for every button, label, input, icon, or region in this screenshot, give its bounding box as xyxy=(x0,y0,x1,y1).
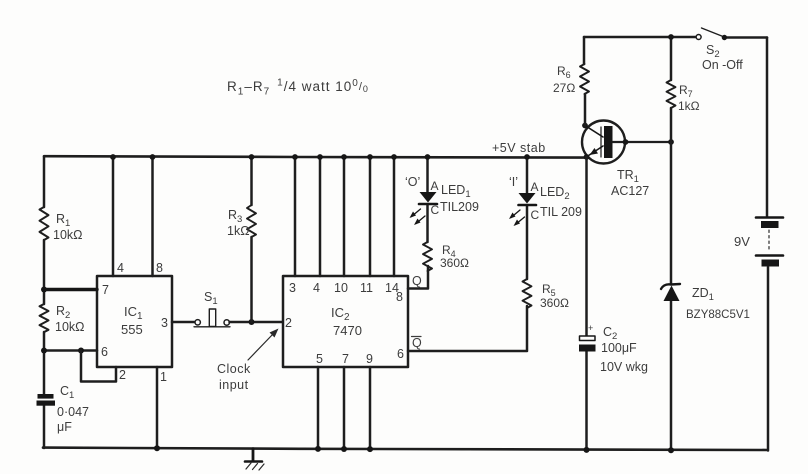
svg-text:8: 8 xyxy=(396,290,403,304)
resistor R3 xyxy=(250,157,253,322)
wire: bottom 0V bus xyxy=(43,448,767,450)
svg-text:3: 3 xyxy=(289,281,296,295)
junction: R7 on rail xyxy=(668,34,674,40)
svg-text:7: 7 xyxy=(102,283,109,297)
svg-text:C2: C2 xyxy=(603,325,617,342)
svg-text:9V: 9V xyxy=(734,234,750,249)
svg-text:C1: C1 xyxy=(60,384,74,401)
wire: pin 2 loop xyxy=(81,351,116,382)
junction: pin6/pin2 loop xyxy=(78,348,84,354)
LED2 wires xyxy=(526,157,529,279)
svg-text:LED1: LED1 xyxy=(441,183,471,200)
svg-text:TR1: TR1 xyxy=(617,168,639,185)
svg-text:AC127: AC127 xyxy=(611,184,649,198)
svg-text:C: C xyxy=(531,208,540,222)
svg-text:2: 2 xyxy=(119,368,126,382)
junction: left rail pin6 xyxy=(41,348,47,354)
svg-text:11: 11 xyxy=(360,281,373,295)
pin 7 wire (bold) xyxy=(44,288,97,291)
svg-text:10V wkg: 10V wkg xyxy=(600,360,648,374)
resistor R4 xyxy=(423,242,432,271)
battery B1 9V xyxy=(766,38,769,217)
svg-text:9: 9 xyxy=(366,352,373,366)
svg-text:10kΩ: 10kΩ xyxy=(55,320,85,334)
svg-text:0·047: 0·047 xyxy=(57,405,89,419)
svg-text:R7: R7 xyxy=(679,83,693,99)
junctions: IC2 bottom pins on 0V bus xyxy=(315,446,321,452)
svg-text:Q: Q xyxy=(412,336,422,350)
switch S1 push-button xyxy=(195,320,200,325)
svg-text:1kΩ: 1kΩ xyxy=(227,224,250,238)
pin 1 wire xyxy=(156,367,159,449)
wire: left vertical rail xyxy=(43,157,46,448)
svg-text:input: input xyxy=(219,378,249,392)
LED1 light arrows xyxy=(412,209,421,217)
TR1 emitter line with arrow xyxy=(587,146,603,157)
svg-text:5: 5 xyxy=(316,352,323,366)
resistor R2 xyxy=(40,304,49,332)
switch S2 xyxy=(696,35,701,40)
TR1 collector line xyxy=(585,126,603,138)
svg-text:360Ω: 360Ω xyxy=(540,296,569,310)
svg-text:R6: R6 xyxy=(557,64,571,80)
svg-text:R1: R1 xyxy=(56,212,70,229)
LED2 TIL209 xyxy=(519,193,536,204)
junction: C2 on 0V bus xyxy=(584,447,590,453)
IC2 bottom pin wires 5,7,9 xyxy=(318,367,370,449)
svg-text:S1: S1 xyxy=(204,290,218,307)
svg-text:1: 1 xyxy=(160,370,167,384)
pin 3 wire xyxy=(172,321,195,324)
svg-text:2: 2 xyxy=(285,316,292,330)
svg-text:10: 10 xyxy=(334,281,348,295)
svg-text:3: 3 xyxy=(161,316,168,330)
svg-text:10kΩ: 10kΩ xyxy=(53,228,83,242)
resistor R7 with wires xyxy=(670,37,673,142)
svg-text:Clock: Clock xyxy=(217,362,251,376)
svg-text:1kΩ: 1kΩ xyxy=(678,99,700,113)
junction: emitter / +5V xyxy=(584,154,590,160)
svg-text:Q: Q xyxy=(412,274,422,288)
svg-text:R1–R71/4 watt 100/0: R1–R71/4 watt 100/0 xyxy=(227,78,369,98)
IC2 top pin wires 3,4,10,11,14 xyxy=(295,157,394,276)
wire: Qbar pin 6 to R5 xyxy=(408,306,527,351)
junction: ZD1 on 0V bus xyxy=(668,447,674,453)
capacitor C2 with wires xyxy=(585,157,588,450)
svg-text:27Ω: 27Ω xyxy=(553,81,575,95)
wire: top right rail xyxy=(584,36,696,39)
resistor R1 xyxy=(40,207,49,240)
junction: R3 / clock line xyxy=(249,319,255,325)
svg-text:On -Off: On -Off xyxy=(702,58,743,72)
svg-text:4: 4 xyxy=(117,261,124,275)
svg-text:8: 8 xyxy=(156,261,163,275)
svg-text:100μF: 100μF xyxy=(601,341,637,355)
junction: base at circle edge xyxy=(623,139,629,145)
svg-text:‘I’: ‘I’ xyxy=(509,175,518,189)
svg-text:4: 4 xyxy=(313,281,320,295)
svg-text:R3: R3 xyxy=(228,208,242,225)
svg-text:555: 555 xyxy=(121,322,143,337)
svg-text:360Ω: 360Ω xyxy=(440,256,469,270)
svg-text:A: A xyxy=(431,179,439,193)
wire: S1 to IC2 pin 2 xyxy=(230,321,284,324)
svg-text:+: + xyxy=(588,323,593,333)
svg-text:TIL 209: TIL 209 xyxy=(540,205,582,219)
LED1 TIL209 xyxy=(420,192,437,203)
wire: Q output pin 8 to R4 xyxy=(408,266,428,289)
svg-text:7: 7 xyxy=(342,352,349,366)
junctions on +5V bus xyxy=(110,154,116,160)
svg-text:6: 6 xyxy=(101,345,108,359)
svg-text:μF: μF xyxy=(57,420,72,434)
pin 4 wire xyxy=(112,157,115,276)
svg-text:7470: 7470 xyxy=(333,323,362,338)
svg-text:A: A xyxy=(531,180,539,194)
svg-text:C: C xyxy=(431,203,440,217)
svg-text:ZD1: ZD1 xyxy=(692,286,714,303)
LED2 light arrows xyxy=(511,210,520,218)
ground xyxy=(252,449,255,461)
resistor R5 xyxy=(523,279,532,308)
LED1 wires xyxy=(426,157,429,242)
resistor R6 with wires xyxy=(584,37,585,126)
junction: base / R7 / ZD1 xyxy=(668,139,674,145)
transistor TR1 AC127 xyxy=(582,121,625,164)
svg-text:6: 6 xyxy=(397,347,404,361)
zener ZD1 with wires xyxy=(670,142,673,450)
svg-text:‘O’: ‘O’ xyxy=(405,175,420,189)
svg-text:LED2: LED2 xyxy=(540,185,570,202)
capacitor C1 xyxy=(38,394,54,399)
svg-text:R2: R2 xyxy=(56,304,70,321)
junction: collector xyxy=(582,123,588,129)
junction: pin1 on 0V bus xyxy=(154,445,160,451)
wire: +5V supply bus (top horizontal) xyxy=(44,156,586,157)
svg-text:BZY88C5V1: BZY88C5V1 xyxy=(686,309,750,321)
pin 8 wire xyxy=(151,157,154,276)
op IC1 555 body xyxy=(97,276,172,367)
junction: left rail pin7 xyxy=(41,287,47,293)
svg-text:+5V stab: +5V stab xyxy=(492,141,546,155)
TR1 base line xyxy=(613,141,672,143)
svg-text:TIL209: TIL209 xyxy=(440,200,479,214)
op IC2 7470 body xyxy=(283,276,408,367)
pin 6 wire xyxy=(44,349,97,352)
